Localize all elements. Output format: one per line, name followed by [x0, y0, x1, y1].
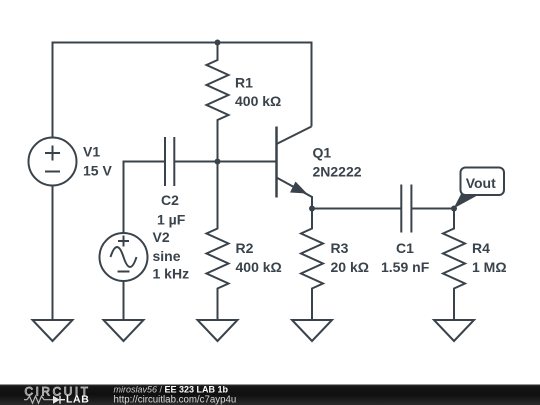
svg-text:15 V: 15 V: [83, 163, 112, 179]
svg-text:C1: C1: [396, 240, 414, 256]
svg-text:400 kΩ: 400 kΩ: [235, 93, 281, 109]
svg-text:R4: R4: [472, 240, 490, 256]
svg-text:1 MΩ: 1 MΩ: [472, 259, 507, 275]
svg-text:LAB: LAB: [66, 394, 89, 405]
svg-text:20 kΩ: 20 kΩ: [331, 259, 369, 275]
svg-text:1 µF: 1 µF: [157, 212, 186, 228]
svg-text:1.59 nF: 1.59 nF: [381, 259, 430, 275]
svg-text:sine: sine: [153, 248, 181, 264]
svg-text:V1: V1: [83, 143, 100, 159]
svg-text:2N2222: 2N2222: [313, 163, 362, 179]
svg-text:V2: V2: [153, 229, 170, 245]
svg-text:http://circuitlab.com/c7ayp4u: http://circuitlab.com/c7ayp4u: [114, 394, 237, 405]
svg-text:Q1: Q1: [313, 144, 332, 160]
svg-text:Vout: Vout: [466, 175, 496, 191]
svg-text:miroslav56 / EE 323 LAB 1b: miroslav56 / EE 323 LAB 1b: [114, 384, 229, 394]
svg-text:1 kHz: 1 kHz: [153, 266, 190, 282]
svg-text:400 kΩ: 400 kΩ: [236, 259, 282, 275]
svg-text:R1: R1: [235, 74, 253, 90]
svg-text:C2: C2: [161, 192, 179, 208]
svg-text:R3: R3: [331, 240, 349, 256]
svg-text:R2: R2: [236, 240, 254, 256]
